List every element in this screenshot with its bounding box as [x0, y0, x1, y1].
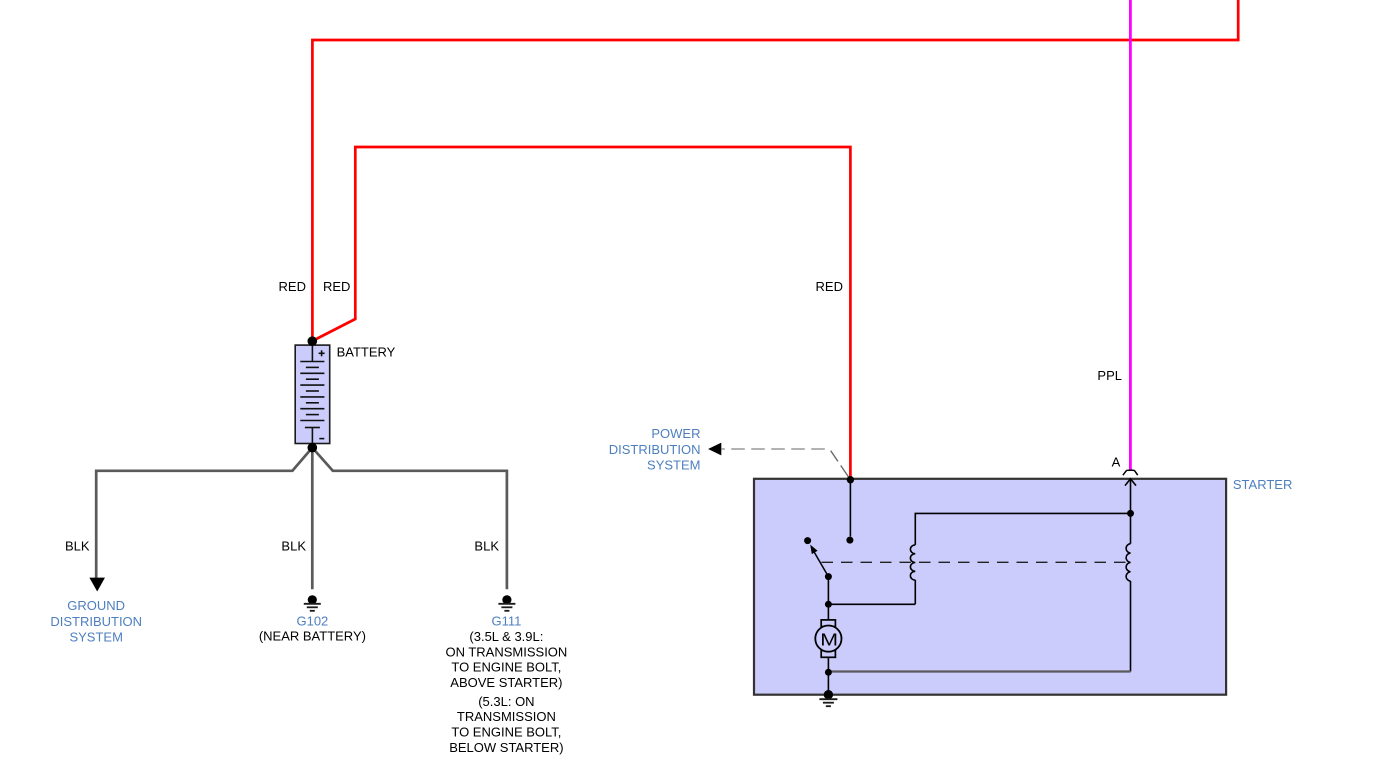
svg-text:(3.5L & 3.9L:: (3.5L & 3.9L: [469, 629, 543, 644]
svg-text:POWER: POWER [651, 426, 700, 441]
svg-text:BLK: BLK [281, 538, 306, 553]
svg-text:TO ENGINE BOLT,: TO ENGINE BOLT, [451, 725, 561, 740]
svg-text:G111: G111 [491, 613, 521, 628]
svg-text:TO ENGINE BOLT,: TO ENGINE BOLT, [451, 660, 561, 675]
svg-text:SYSTEM: SYSTEM [647, 458, 700, 473]
svg-text:G102: G102 [296, 613, 328, 628]
svg-text:(NEAR BATTERY): (NEAR BATTERY) [259, 629, 366, 644]
svg-text:M: M [820, 630, 838, 650]
svg-text:RED: RED [323, 279, 350, 294]
svg-text:PPL: PPL [1097, 368, 1122, 383]
svg-text:BELOW STARTER): BELOW STARTER) [449, 740, 563, 755]
svg-text:DISTRIBUTION: DISTRIBUTION [609, 442, 701, 457]
svg-text:GROUND: GROUND [67, 598, 125, 613]
svg-text:ABOVE STARTER): ABOVE STARTER) [450, 675, 562, 690]
svg-text:DISTRIBUTION: DISTRIBUTION [50, 614, 142, 629]
svg-text:ON TRANSMISSION: ON TRANSMISSION [445, 644, 567, 659]
svg-text:(5.3L: ON: (5.3L: ON [478, 694, 534, 709]
svg-text:A: A [1112, 454, 1121, 469]
svg-text:TRANSMISSION: TRANSMISSION [457, 709, 556, 724]
svg-text:RED: RED [816, 279, 843, 294]
svg-text:BLK: BLK [474, 538, 499, 553]
svg-text:SYSTEM: SYSTEM [69, 630, 122, 645]
svg-text:BLK: BLK [65, 538, 90, 553]
svg-text:STARTER: STARTER [1233, 477, 1292, 492]
svg-text:RED: RED [279, 279, 306, 294]
svg-text:BATTERY: BATTERY [337, 345, 396, 360]
